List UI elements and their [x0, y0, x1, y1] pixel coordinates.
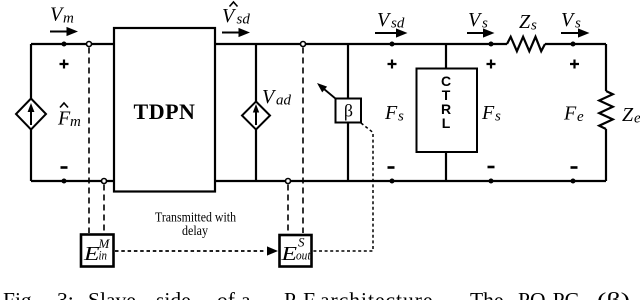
node dot bottom left — [62, 179, 67, 184]
resistor Zs — [507, 37, 545, 51]
block CTRL — [417, 69, 478, 153]
wire CTRL top stub — [445, 44, 447, 68]
arrow Vs left — [467, 28, 495, 37]
block Ein — [81, 235, 114, 267]
dashed probe line x303 — [302, 48, 304, 234]
wire bottom rail — [31, 180, 606, 182]
label Vsd — [377, 9, 405, 32]
label Vs right — [561, 9, 581, 32]
label Ze — [622, 104, 640, 127]
block TDPN — [114, 28, 215, 192]
wire Vad branch — [255, 44, 257, 181]
node dot bottom right — [571, 179, 576, 184]
svg-text:TDPN: TDPN — [134, 99, 196, 124]
svg-text:s: s — [531, 18, 537, 34]
label Fe — [563, 103, 584, 126]
wire CTRL bottom stub — [445, 152, 447, 181]
arrow Vsd — [375, 28, 408, 37]
wire beta branch — [347, 44, 349, 181]
label Vm — [50, 4, 74, 27]
svg-text:F: F — [481, 102, 495, 124]
svg-text:The: The — [470, 288, 503, 300]
label Fs left — [384, 102, 404, 125]
svg-text:m: m — [70, 114, 81, 130]
svg-text:a: a — [241, 288, 251, 300]
caption figure 3 — [3, 288, 630, 300]
probe terminal top left — [87, 42, 92, 47]
svg-text:side: side — [156, 288, 191, 300]
svg-text:F: F — [563, 103, 577, 125]
probe terminal bottom left — [102, 179, 107, 184]
label Fs right — [481, 102, 501, 125]
block Eout — [280, 235, 312, 267]
polarity plus left — [60, 60, 69, 69]
dashed probe line x288 — [287, 185, 289, 234]
svg-text:P-F: P-F — [284, 288, 315, 300]
svg-text:s: s — [482, 16, 488, 32]
svg-text:ad: ad — [276, 93, 292, 109]
svg-text:E: E — [83, 243, 100, 265]
resistor Ze — [599, 91, 613, 129]
wire right rail — [605, 44, 607, 181]
svg-text:architecture.: architecture. — [320, 288, 440, 300]
svg-text:(β): (β) — [597, 288, 630, 300]
polarity minus right — [571, 166, 578, 169]
source Vad diamond — [242, 102, 270, 130]
node dot bottom Vsd — [390, 179, 395, 184]
svg-text:F: F — [384, 102, 398, 124]
label Fm-hat — [57, 103, 81, 130]
node dot top Vs — [489, 42, 494, 47]
label Vsd-hat — [222, 2, 250, 28]
polarity plus Vs — [487, 60, 496, 69]
polarity minus Vs — [488, 166, 495, 169]
polarity plus Vsd — [388, 60, 397, 69]
block beta PO-PC — [336, 99, 362, 123]
arrow Vm — [50, 27, 78, 36]
label Vad — [262, 86, 292, 109]
polarity minus Vsd — [388, 166, 395, 169]
svg-text:s: s — [398, 109, 404, 125]
svg-text:F: F — [57, 108, 71, 130]
svg-text:s: s — [575, 16, 581, 32]
label Zs — [519, 11, 537, 34]
dashed feedback line to beta — [313, 123, 373, 251]
svg-text:E: E — [280, 243, 297, 265]
probe terminal top middle — [301, 42, 306, 47]
dashed delay arrow — [115, 246, 278, 255]
svg-text:m: m — [63, 11, 74, 27]
dashed probe line x89 — [88, 48, 90, 234]
probe terminal bottom middle — [286, 179, 291, 184]
arrow Vsd-hat — [222, 28, 250, 37]
svg-text:Z: Z — [622, 104, 634, 126]
node dot top right — [571, 42, 576, 47]
wire left rail — [30, 44, 32, 181]
polarity minus left — [61, 166, 68, 169]
dashed probe line x104 — [103, 185, 105, 234]
svg-text:s: s — [495, 109, 501, 125]
svg-text:delay: delay — [182, 224, 208, 239]
svg-text:Slave: Slave — [88, 288, 136, 300]
polarity plus right — [570, 60, 579, 69]
node dot top left — [62, 42, 67, 47]
svg-text:e: e — [577, 109, 584, 125]
svg-text:PO-PC: PO-PC — [518, 288, 579, 300]
svg-text:β: β — [344, 101, 353, 121]
svg-text:sd: sd — [391, 16, 405, 32]
svg-text:Z: Z — [519, 11, 531, 33]
svg-text:of: of — [217, 288, 236, 300]
svg-text:Fig.: Fig. — [3, 288, 37, 300]
node dot top Vsd — [390, 42, 395, 47]
svg-text:out: out — [296, 248, 311, 263]
svg-text:sd: sd — [237, 12, 251, 28]
node dot bottom Vs — [489, 179, 494, 184]
wire top rail — [31, 43, 606, 45]
svg-text:L: L — [442, 115, 451, 131]
source Fm diamond — [16, 99, 46, 130]
svg-text:3:: 3: — [57, 288, 74, 300]
svg-text:in: in — [99, 248, 108, 263]
label transmitted with delay — [155, 211, 236, 240]
svg-text:e: e — [634, 111, 640, 127]
arrow Vs right — [561, 28, 590, 37]
label Vs left — [468, 9, 488, 32]
beta variable arrow — [317, 83, 336, 99]
